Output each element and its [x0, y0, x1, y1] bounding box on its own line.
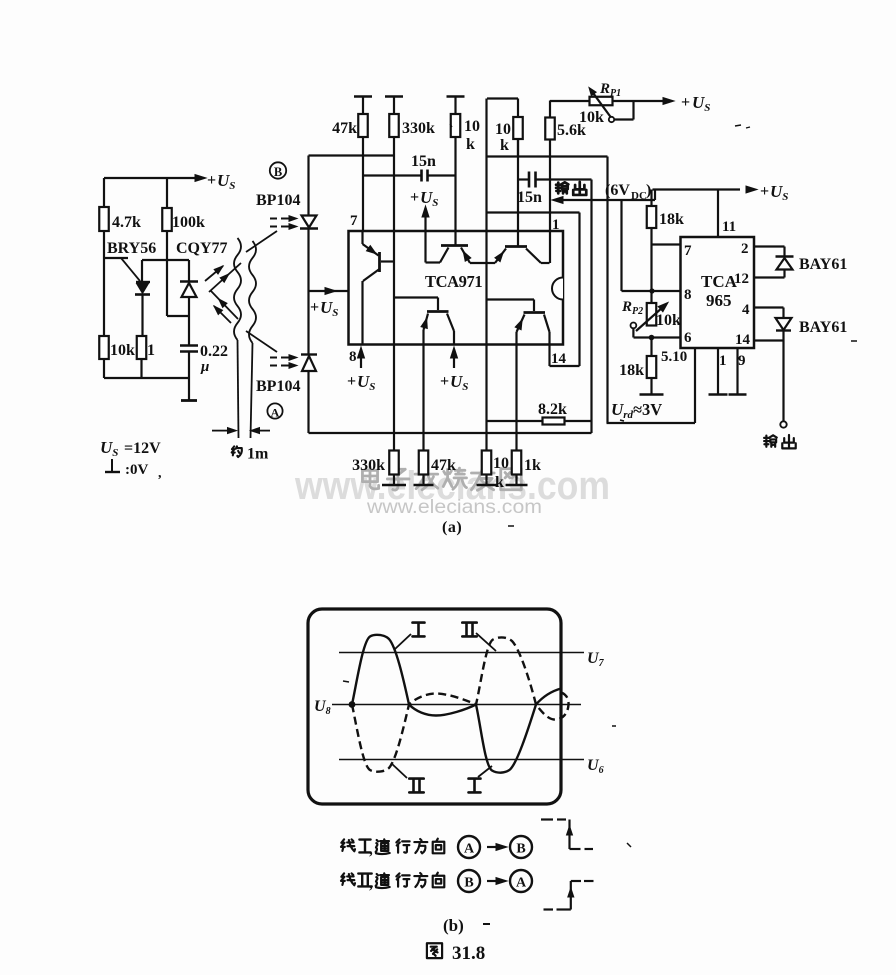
svg-text:BAY61: BAY61 — [799, 256, 847, 273]
svg-text:12: 12 — [734, 271, 749, 287]
svg-text:U7: U7 — [587, 650, 605, 669]
svg-text:www.elecians.com: www.elecians.com — [366, 497, 542, 518]
svg-text:US: US — [770, 182, 788, 203]
svg-text:US: US — [357, 372, 375, 393]
svg-text:14: 14 — [551, 351, 567, 367]
svg-text:US: US — [420, 188, 438, 209]
svg-text:+: + — [440, 373, 449, 390]
svg-text:US: US — [217, 171, 235, 192]
svg-text:10k: 10k — [656, 312, 681, 329]
svg-text:4.7k: 4.7k — [112, 214, 141, 231]
svg-text:A: A — [516, 876, 527, 891]
svg-text:U8: U8 — [314, 698, 331, 717]
svg-text:8: 8 — [684, 287, 692, 303]
svg-text:965: 965 — [706, 291, 732, 310]
svg-text:100k: 100k — [172, 214, 205, 231]
svg-text:B: B — [516, 842, 525, 857]
svg-text:15n: 15n — [411, 153, 436, 170]
svg-text:+: + — [681, 94, 690, 111]
svg-text:+: + — [310, 299, 319, 316]
svg-text:0.22: 0.22 — [200, 343, 228, 360]
svg-text:7: 7 — [350, 213, 358, 229]
svg-text::0V: :0V — [125, 462, 148, 478]
svg-text:8: 8 — [349, 349, 357, 365]
svg-text:+: + — [207, 172, 216, 189]
svg-text:47k: 47k — [332, 120, 357, 137]
svg-text:2: 2 — [741, 241, 749, 257]
svg-text:RP1: RP1 — [599, 81, 621, 99]
svg-text:10: 10 — [493, 455, 509, 472]
svg-text:11: 11 — [722, 219, 736, 235]
svg-text:US: US — [450, 372, 468, 393]
svg-text:U6: U6 — [587, 757, 604, 776]
svg-text:μ: μ — [200, 359, 209, 375]
svg-text:TCA971: TCA971 — [425, 272, 482, 291]
svg-text:47k: 47k — [431, 457, 456, 474]
svg-text:4: 4 — [742, 302, 750, 318]
svg-text:1: 1 — [147, 342, 155, 359]
svg-text:6: 6 — [684, 330, 692, 346]
svg-text:BP104: BP104 — [256, 192, 300, 209]
svg-text:7: 7 — [684, 243, 692, 259]
svg-text:(a): (a) — [442, 519, 462, 536]
svg-text:(6V: (6V — [605, 182, 630, 199]
svg-text:1: 1 — [552, 217, 560, 233]
svg-text:(b): (b) — [443, 916, 464, 935]
svg-text:330k: 330k — [402, 120, 435, 137]
svg-text:BAY61: BAY61 — [799, 319, 847, 336]
svg-text:A: A — [271, 406, 280, 420]
svg-text:10: 10 — [464, 118, 480, 135]
svg-text:k: k — [466, 136, 475, 153]
svg-text:BP104: BP104 — [256, 378, 300, 395]
svg-text:RP2: RP2 — [621, 299, 643, 317]
svg-text:US: US — [100, 438, 118, 459]
svg-text:Urd: Urd — [611, 400, 634, 421]
svg-text:A: A — [464, 842, 475, 857]
svg-text:,: , — [158, 466, 162, 481]
svg-text:≈3V: ≈3V — [633, 400, 662, 419]
svg-text:8.2k: 8.2k — [538, 401, 567, 418]
svg-text:1k: 1k — [524, 457, 541, 474]
svg-text:k: k — [495, 474, 504, 491]
svg-text:15n: 15n — [517, 189, 542, 206]
svg-text:+: + — [410, 189, 419, 206]
svg-text:+: + — [347, 373, 356, 390]
svg-text:B: B — [274, 165, 282, 179]
svg-text:10k: 10k — [579, 109, 604, 126]
svg-text:TCA: TCA — [701, 272, 738, 291]
svg-text:31.8: 31.8 — [452, 943, 485, 964]
svg-text:US: US — [320, 298, 338, 319]
svg-text:14: 14 — [735, 332, 751, 348]
svg-text:1m: 1m — [247, 446, 269, 463]
svg-text:18k: 18k — [619, 362, 644, 379]
svg-text:BRY56: BRY56 — [107, 240, 156, 257]
svg-text:k: k — [500, 137, 509, 154]
svg-text:10k: 10k — [110, 342, 135, 359]
svg-text:=12V: =12V — [124, 440, 161, 457]
svg-text:B: B — [464, 876, 473, 891]
svg-text:US: US — [692, 93, 710, 114]
svg-text:1: 1 — [719, 353, 727, 369]
svg-text:+: + — [760, 183, 769, 200]
svg-text:,: , — [369, 842, 373, 858]
svg-text:330k: 330k — [352, 457, 385, 474]
svg-text:10: 10 — [495, 121, 511, 138]
svg-text:CQY77: CQY77 — [176, 240, 228, 257]
svg-text:9: 9 — [738, 353, 746, 369]
svg-text:5.10: 5.10 — [661, 349, 687, 365]
svg-text:18k: 18k — [659, 211, 684, 228]
svg-text:,: , — [369, 876, 373, 892]
svg-text:DC: DC — [631, 190, 647, 202]
